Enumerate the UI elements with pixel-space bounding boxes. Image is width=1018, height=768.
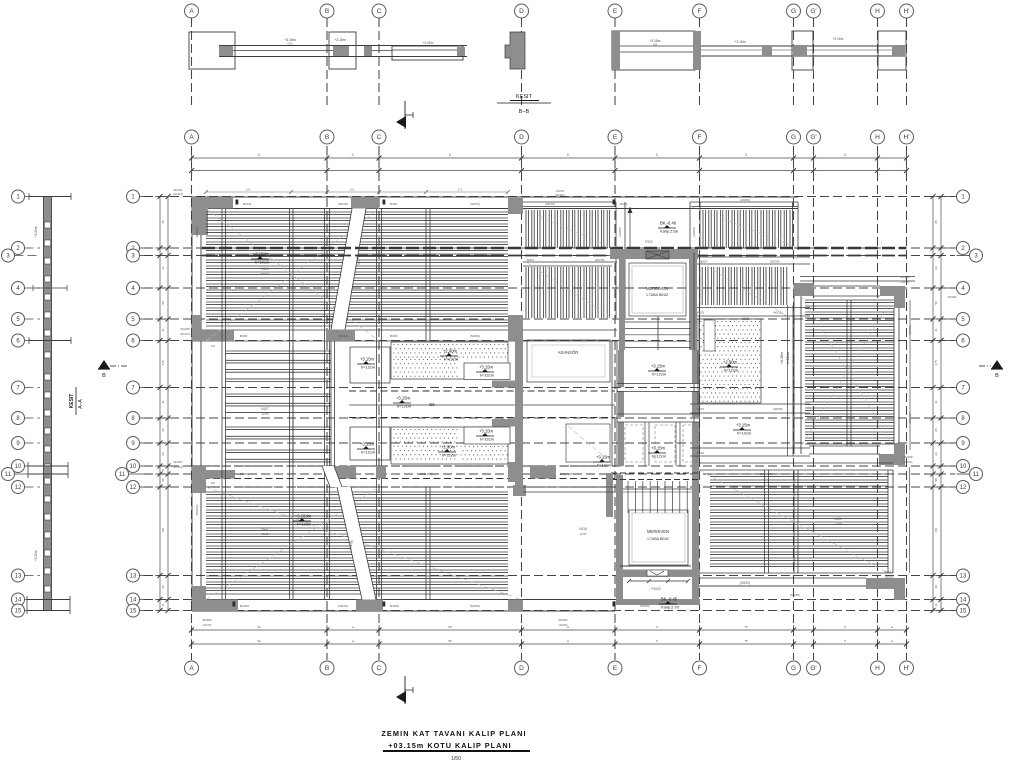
svg-text:(50/30): (50/30) [790,593,800,597]
svg-text:A: A [189,665,194,672]
svg-text:58: 58 [161,478,165,482]
slab diagonal top-left panel [206,209,379,342]
svg-text:F: F [698,134,702,141]
grid bubble row 15 left [127,604,140,617]
svg-text:C: C [377,134,382,141]
grid line H vertical [877,146,879,660]
svg-text:11: 11 [5,472,12,478]
svg-text:+3.05m: +3.05m [423,41,434,45]
top section bubbles A-D [185,4,199,18]
dim tick right row 15 [928,610,938,612]
dim tick bottom H [877,625,879,635]
grid bubble G' top [807,130,821,144]
svg-text:55: 55 [448,639,452,643]
svg-text:B203: B203 [527,258,534,262]
grid bubble row 5 left [127,313,140,326]
section A column outline [189,32,235,69]
grid bubble row 15 right [957,604,970,617]
dim tick right row 5 [928,318,938,320]
dim tick top H' [906,153,908,163]
svg-text:175: 175 [161,360,165,365]
svg-text:5.: 5. [567,153,570,157]
svg-text:E: E [613,134,618,141]
right dimension line 1 [932,197,934,611]
svg-text:75: 75 [744,639,748,643]
grid row3 heavy dashes inside plan [202,255,906,257]
dim tick left row 1 [155,196,165,198]
svg-text:SD062: SD062 [202,618,212,622]
svg-text:B5: B5 [429,402,435,407]
title underline [383,750,530,752]
D-line wall block row12 [513,485,526,496]
section C column fill [364,46,372,56]
section beam band F-H [701,45,905,47]
svg-text:+2.90m: +2.90m [443,349,458,354]
svg-text:181: 181 [161,527,165,532]
svg-text:+3.15m: +3.15m [596,455,611,460]
section B column outline [329,32,356,69]
svg-text:5.: 5. [745,153,748,157]
svg-text:33: 33 [161,266,165,270]
svg-text:G': G' [810,134,816,141]
svg-text:15: 15 [960,609,967,615]
dim tick right row 11 [928,473,938,475]
svg-text:h=12cm: h=12cm [442,453,457,458]
grid line 8 horizontal [144,417,955,419]
grid bubble E top [608,130,622,144]
E wall bar segments rows6-10 [618,350,624,387]
white room inside stipple2 right [464,427,510,444]
grid line 7 horizontal [144,387,955,389]
svg-text:H': H' [904,8,910,15]
grid bubble G' bottom [807,661,821,675]
svg-text:B306: B306 [390,334,398,338]
stair shaft walls E-F lower [616,475,623,605]
bottom dimension line 1 [192,629,907,631]
svg-text:B1C-M06: B1C-M06 [560,472,573,476]
grid bubble B top [320,130,334,144]
grid bubble row 6 right [957,334,970,347]
svg-text:12: 12 [960,485,967,491]
grid bubble row 14 left [127,593,140,606]
dim tick right row 7 [928,387,938,389]
svg-text:(30/30): (30/30) [901,280,910,284]
svg-text:+2.90m: +2.90m [441,445,456,450]
beam row3 F-G B204 [694,256,810,258]
dim tick right row 14 [928,599,938,601]
inner beam line x222 vertical full [221,209,223,600]
grid line G vertical [793,146,795,660]
svg-text:+3.15m: +3.15m [34,550,38,561]
stipple white notch top-left [704,320,715,351]
section column fill at G [793,45,807,56]
svg-text:h=12cm: h=12cm [397,404,412,409]
svg-text:G: G [791,8,796,15]
corner block H row13-14 [866,578,905,600]
small rooms row8-9 grid of beams [644,422,646,466]
svg-text:+3.15m: +3.15m [334,38,346,42]
grid bubble row 2 right [957,242,970,255]
room box C-D rows6-7 (h=12 label) [350,347,390,383]
svg-text:+3.15m: +3.15m [360,357,375,362]
svg-text:(50/30): (50/30) [740,581,750,585]
svg-text:75: 75 [744,625,748,629]
grid bubble F top [693,130,707,144]
svg-text:N117: N117 [261,527,269,531]
D-line wall step row7 [492,381,515,388]
dim tick top H [877,153,879,163]
svg-text:MERDIVEN: MERDIVEN [647,529,669,534]
svg-text:110: 110 [211,344,216,348]
grid bubble C top [372,130,386,144]
svg-text:162: 162 [350,188,355,192]
bottom dimension line 2 [192,643,907,645]
top section bubbles E-H [608,4,622,18]
section F wall fill [693,31,701,70]
dim tick top C [378,153,380,163]
top dimension line 1 [192,157,907,159]
right wing right wall [893,308,895,443]
svg-text:5.: 5. [844,153,847,157]
grid line H' vertical [906,146,908,660]
stair treads upper shaft [625,321,691,323]
column block D1 [508,198,523,214]
dim tick bottom H' [906,625,908,635]
slab diagonal bottom-left panel [206,487,379,600]
svg-text:5a: 5a [257,639,261,643]
svg-text:B1C-M06: B1C-M06 [760,472,773,476]
svg-text:+3.15m: +3.15m [833,37,844,41]
svg-text:N118: N118 [579,527,587,531]
svg-text:12: 12 [130,485,137,491]
svg-text:(30/70): (30/70) [470,202,480,206]
left section wall column [43,197,45,611]
svg-text:KESIT: KESIT [516,94,533,100]
slab diagonal right wing [801,296,894,446]
svg-text:1.TABA BINIZ: 1.TABA BINIZ [647,537,670,541]
svg-text:23: 23 [934,452,938,456]
svg-text:+3.15m: +3.15m [34,226,38,237]
dim tick right row 6 [928,340,938,342]
inner dashed rooms rows8-9 E-F [625,425,643,462]
dim tick right row 10 [928,465,938,467]
stair shaft walls E-F upper [610,249,698,259]
room boxes rows8-9 D-E zone [566,424,610,462]
grid line 10 horizontal [144,465,955,467]
svg-text:15: 15 [130,609,137,615]
svg-text:+3.15m: +3.15m [396,396,411,401]
grid bubble G bottom [787,661,801,675]
mid diagonal band rows10-12 [322,466,342,487]
right wing bottom beam row9 [809,445,880,447]
svg-text:B: B [325,665,329,672]
svg-text:(30/60): (30/60) [692,227,696,237]
svg-text:(50/35): (50/35) [595,258,605,262]
bubble connector lines left [140,196,153,198]
grid bubble row 6 left [127,334,140,347]
svg-text:BK.-6.40: BK.-6.40 [660,221,677,226]
svg-text:(40/70): (40/70) [203,623,212,627]
left section bubble stubs [25,196,41,198]
svg-text:F: F [698,8,702,15]
section end cap [457,47,465,56]
left section top tee row1 [29,196,71,198]
dim tick right row 9 [928,442,938,444]
svg-text:h=12cm: h=12cm [597,463,612,468]
stair shaft inner room upper [629,263,686,316]
grid line 12 horizontal [144,486,955,488]
svg-text:12: 12 [15,485,22,491]
svg-text:150: 150 [246,188,251,192]
svg-text:(40/110): (40/110) [180,332,190,336]
lower shaft dimension tick row [629,580,688,582]
svg-text:13: 13 [130,574,137,580]
svg-text:(30/70): (30/70) [261,272,270,276]
svg-text:B102: B102 [390,202,398,206]
dim tick left row 12 [155,486,165,488]
grid bubble row 10 left [127,460,140,473]
svg-text:14: 14 [130,598,137,604]
column L-block A5-6 [192,315,234,341]
grid bubble row 8 left [127,412,140,425]
svg-text:C: C [377,665,382,672]
slab diagonal F-G panels [690,206,798,248]
grid line 11 horizontal [144,473,955,475]
joist panel F-G rows1-2 vertical [690,201,798,203]
svg-text:+3.15m: +3.15m [736,423,751,428]
stipple area rows8-10 D-E [391,426,508,428]
svg-text:KESIT: KESIT [69,394,75,409]
svg-text:h=12cm: h=12cm [361,450,376,455]
grid line D vertical [521,146,523,660]
svg-text:N107: N107 [261,407,269,411]
svg-text:10: 10 [960,464,967,470]
dim tick left row 5 [155,318,165,320]
svg-text:h=12cm: h=12cm [786,352,790,364]
grid bubble A bottom [185,661,199,675]
bubble connector lines right [944,196,957,198]
svg-text:+3.15m: +3.15m [651,364,666,369]
svg-text:(50/35): (50/35) [770,260,780,264]
svg-text:E: E [613,8,618,15]
svg-text:25: 25 [161,428,165,432]
left dimension line 2 [167,197,169,611]
grid line 9 horizontal [144,442,955,444]
dim tick left row 9 [155,442,165,444]
dim tick left row 4 [155,287,165,289]
dim tick left row 15 [155,610,165,612]
svg-text:11: 11 [934,603,938,606]
svg-text:(50/30): (50/30) [470,604,480,608]
svg-text:ZEMIN KAT TAVANI KALIP PLANI: ZEMIN KAT TAVANI KALIP PLANI [381,729,526,738]
column block B6-C6 [326,330,355,342]
svg-text:(40/110): (40/110) [173,192,183,196]
grid bubble H' bottom [900,661,914,675]
slab diagonal D-E panels [523,209,612,248]
joist panel A-D rows1-5 [206,211,508,213]
grid line 5 horizontal [144,318,955,320]
svg-text:+3.15m: +3.15m [651,446,666,451]
svg-text:SD209: SD209 [903,455,913,459]
svg-text:D: D [519,8,524,15]
bottom-right panel beams [699,462,893,464]
slab diagonal bottom-right [699,470,888,573]
svg-text:(40/90): (40/90) [556,189,565,193]
grid line 3 horizontal [144,255,955,257]
dim tick top E [614,153,616,163]
grid bubble A top [185,130,199,144]
grid bubble H top [871,130,885,144]
svg-text:(40/90): (40/90) [559,623,568,627]
dim tick top D [521,153,523,163]
dim tick bottom B [326,625,328,635]
grid bubble row 1 right [957,190,970,203]
section E slab lines [620,45,695,47]
column block D5 mid [508,315,523,341]
shaft top wall inner elevator marker [646,251,669,259]
svg-text:(30/60): (30/60) [618,227,622,237]
dim tick bottom G' [813,625,815,635]
joist panel G-H rows4-9 horizontal [805,299,894,301]
beam row3b G-H lintel [800,276,915,278]
left dimension line 1 [159,197,161,611]
dim tick top F [699,153,701,163]
svg-text:P202: P202 [645,240,653,244]
svg-text:10: 10 [15,464,22,470]
grid bubble row 3 right [970,249,983,262]
svg-text:h=12cm: h=12cm [737,431,752,436]
dim tick right row 1 [928,196,938,198]
D-line wall step row8 [492,419,515,427]
grid bubble row 8 right [957,412,970,425]
dim tick bottom A [191,625,193,635]
svg-text:(30/60): (30/60) [740,198,750,202]
wall stub D-E rows10-12 [530,466,556,479]
dim tick left row 14 [155,599,165,601]
svg-text:5.: 5. [258,153,261,157]
svg-text:h=12cm: h=12cm [480,437,495,442]
grid bubble B bottom [320,661,334,675]
svg-text:SD064: SD064 [558,618,568,622]
grid line 13 horizontal [144,575,955,577]
grid line 6 horizontal [144,340,955,342]
svg-text:23: 23 [161,452,165,456]
left section tee row6 [29,340,71,342]
grid line 15 horizontal [144,610,955,612]
svg-text:SD0L2: SD0L2 [884,570,894,574]
svg-text:MERDIVEN: MERDIVEN [646,286,668,291]
grid bubble row 14 right [957,593,970,606]
inner beam line B vertical [324,209,326,600]
top section grid dashed lines E-H [614,18,616,105]
grid line 1 horizontal [144,196,955,198]
grid bubble G top [787,130,801,144]
section E wall fill left [612,31,620,70]
grid line B vertical [326,146,328,660]
level label bottom-left panel [299,518,305,521]
svg-text:175: 175 [934,360,938,365]
svg-text:45: 45 [934,220,938,224]
grid line E vertical [614,146,616,660]
right wing corner block H row9-10 [879,443,905,465]
svg-text:h=12cm: h=12cm [652,372,667,377]
svg-text:14: 14 [960,598,967,604]
grid bubble E bottom [608,661,622,675]
svg-text:12/35: 12/35 [262,532,269,536]
svg-text:h=10cm: h=10cm [297,522,312,527]
dim tick left row 7 [155,387,165,389]
lower shaft bottom wall [616,599,700,605]
north arrow bottom [404,676,406,704]
svg-text:+2.90m: +2.90m [723,360,738,365]
svg-text:C: C [377,8,382,15]
grid line 4 horizontal [144,287,955,289]
svg-text:H': H' [904,665,910,672]
svg-text:N121: N121 [834,517,842,521]
grid line G' vertical [813,146,815,660]
column block D10 mid [508,462,523,482]
svg-text:25: 25 [934,428,938,432]
grid bubble row 9 left [127,437,140,450]
svg-text:175: 175 [458,188,463,192]
dim tick top G [793,153,795,163]
svg-text:5a: 5a [257,625,261,629]
dim tick right row 2 [928,247,938,249]
grid row2 heavy dashes inside plan [202,247,906,250]
svg-text:B305: B305 [240,334,248,338]
beam B205 F-G [690,307,810,309]
stipple area F-G rows5-9 [697,319,699,403]
svg-text:58: 58 [934,478,938,482]
svg-text:N105: N105 [741,317,749,321]
svg-text:+03.15m KOTU KALIP PLANI: +03.15m KOTU KALIP PLANI [388,741,511,750]
svg-text:F: F [698,665,702,672]
beam row13 F-G [699,577,866,579]
E-F rooms rows6-10 beams [611,341,613,466]
section column fill mid F-G [762,45,772,56]
bottom edge beam A-E [192,599,615,601]
column block D14 bottom [508,600,523,612]
row10-12 beam strip left block dashed [192,465,615,467]
svg-text:B1405: B1405 [240,604,249,608]
right dimension line 2 [940,197,942,611]
room boxes rows8-9 C-D [350,427,390,460]
svg-text:(50/30): (50/30) [640,604,650,608]
svg-text:D: D [519,665,524,672]
column block B10 small [333,466,356,479]
svg-text:31: 31 [161,400,165,404]
svg-text:h=12cm: h=12cm [724,368,739,373]
svg-text:+3.10dm: +3.10dm [295,514,312,519]
dim tick right row 12 [928,486,938,488]
grid bubble H bottom [871,661,885,675]
grid bubble row 7 right [957,381,970,394]
svg-text:E: E [613,665,618,672]
svg-text:(80/110): (80/110) [195,505,199,516]
svg-text:P1003: P1003 [948,295,957,299]
svg-text:45: 45 [161,220,165,224]
svg-text:+3.15dm: +3.15dm [253,252,270,257]
row5-6 beam strip left block [192,329,522,331]
svg-text:h=10cm: h=10cm [255,260,270,265]
svg-text:Kalip:2.58: Kalip:2.58 [660,229,679,234]
svg-text:13: 13 [960,574,967,580]
svg-text:49: 49 [161,585,165,589]
svg-text:B1406: B1406 [390,604,399,608]
svg-text:B–B: B–B [519,109,530,115]
joist panel D-E rows1-2 vertical [523,201,616,203]
svg-text:11: 11 [161,603,165,606]
